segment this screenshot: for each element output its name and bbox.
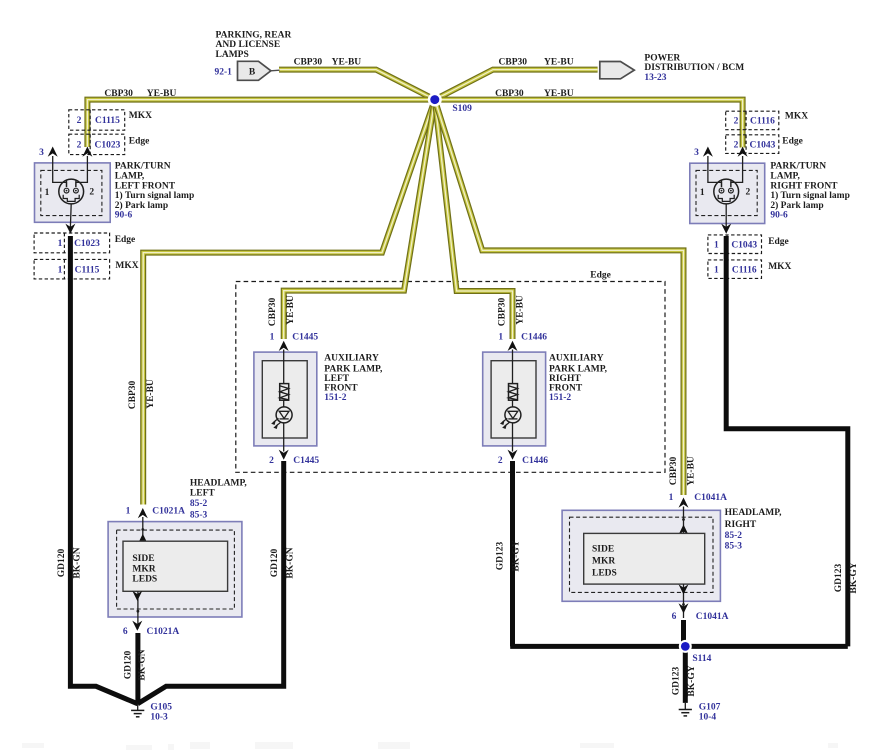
- LED, aux park lamp left: [272, 407, 292, 429]
- resistor, aux park lamp right: [509, 384, 518, 401]
- connector C1445 pin 2: [269, 450, 319, 467]
- svg-text:FRONT: FRONT: [324, 383, 358, 393]
- connector C1446 pin 2: [498, 450, 548, 467]
- svg-text:YE-BU: YE-BU: [515, 295, 525, 325]
- wire GD120 BK-GN from left park/turn lamp to ground G105: [70, 236, 137, 704]
- pin 2 arrow into C1043, right: [731, 147, 748, 188]
- svg-text:2) Park lamp: 2) Park lamp: [770, 200, 823, 211]
- label G107 10-4: [699, 703, 721, 723]
- svg-text:90-6: 90-6: [770, 211, 788, 221]
- connector C1445 pin 1: [270, 332, 319, 351]
- svg-text:RIGHT: RIGHT: [725, 520, 757, 530]
- svg-text:92-1: 92-1: [215, 68, 233, 78]
- svg-text:3: 3: [39, 148, 44, 158]
- wire CBP30 YE-BU from splice S109 to power distribution / BCM: [435, 70, 598, 100]
- wire CBP30 YE-BU from S109 to headlamp right C1041A: [435, 100, 684, 495]
- svg-text:C1041A: C1041A: [694, 493, 727, 503]
- svg-text:6: 6: [672, 612, 677, 622]
- svg-text:3: 3: [694, 148, 699, 158]
- wire CBP30 YE-BU from S109 to headlamp left C1021A: [143, 100, 435, 505]
- svg-text:10-4: 10-4: [699, 713, 717, 723]
- park/turn lamp left front (component box): [35, 163, 111, 222]
- svg-text:MKX: MKX: [115, 261, 138, 271]
- svg-text:CBP30: CBP30: [128, 381, 138, 410]
- svg-text:MKR: MKR: [592, 557, 615, 567]
- svg-text:S109: S109: [452, 104, 472, 114]
- svg-text:YE-BU: YE-BU: [147, 89, 177, 99]
- pin 1 arrow inside headlamp right: [679, 518, 689, 535]
- svg-text:GD123: GD123: [495, 542, 505, 571]
- svg-text:2: 2: [77, 116, 82, 126]
- label auxiliary park lamp left front: [324, 353, 383, 403]
- connector C1043 pin 2 (Edge): [726, 135, 779, 154]
- svg-text:1: 1: [126, 506, 131, 516]
- splice S109: [428, 93, 472, 114]
- svg-text:BK-GY: BK-GY: [687, 665, 697, 696]
- park/turn lamp right front (component box): [690, 163, 765, 223]
- svg-text:151-2: 151-2: [549, 393, 571, 403]
- svg-text:C1446: C1446: [521, 332, 547, 342]
- svg-text:1) Turn signal lamp: 1) Turn signal lamp: [115, 190, 194, 201]
- resistor, aux park lamp left: [280, 384, 289, 401]
- headlamp right (component box): [562, 507, 720, 602]
- svg-text:SIDE: SIDE: [592, 545, 614, 555]
- svg-text:Edge: Edge: [768, 237, 789, 247]
- svg-text:2: 2: [269, 456, 274, 466]
- pin 1 arrow inside headlamp left: [138, 528, 148, 544]
- svg-text:2: 2: [734, 140, 739, 150]
- svg-text:1: 1: [700, 188, 705, 198]
- wire label CBP30 YE-BU (aux left, vertical): [268, 295, 296, 326]
- svg-text:Edge: Edge: [590, 271, 611, 281]
- svg-text:C1445: C1445: [292, 332, 318, 342]
- connector C1021A pin 6: [123, 621, 180, 637]
- svg-text:LAMP,: LAMP,: [115, 172, 145, 182]
- svg-text:C1023: C1023: [74, 239, 100, 249]
- splice S114: [679, 640, 712, 664]
- pin 1 arrow out of lamp bottom, right: [721, 224, 731, 234]
- svg-text:G107: G107: [699, 703, 721, 713]
- wire GD123 BK-GY ground bus to S114: [510, 644, 848, 649]
- svg-text:2: 2: [734, 117, 739, 127]
- svg-text:C1116: C1116: [732, 265, 757, 275]
- svg-text:CBP30: CBP30: [268, 298, 278, 327]
- connector C1043 pin 1 (Edge): [708, 235, 762, 254]
- svg-text:CBP30: CBP30: [294, 57, 323, 67]
- svg-text:CBP30: CBP30: [669, 457, 679, 486]
- wire label GD120 BK-GN (headlamp left drop): [124, 649, 148, 680]
- svg-text:GD123: GD123: [672, 667, 682, 696]
- svg-text:YE-BU: YE-BU: [146, 379, 156, 409]
- wire from bulb to lower pin, left: [69, 204, 72, 227]
- svg-text:YE-BU: YE-BU: [686, 456, 696, 486]
- svg-text:LEFT: LEFT: [190, 489, 215, 499]
- svg-text:MKX: MKX: [785, 112, 808, 122]
- svg-text:GD120: GD120: [57, 549, 67, 578]
- svg-text:C1115: C1115: [95, 116, 120, 126]
- wire label GD123 BK-GY (aux right run): [495, 540, 521, 571]
- svg-text:POWER: POWER: [644, 53, 680, 63]
- wire label GD120 BK-GN (aux left run): [270, 547, 295, 578]
- connector C1023 pin 2 (Edge): [69, 134, 125, 154]
- svg-text:C1023: C1023: [95, 141, 121, 151]
- svg-text:85-3: 85-3: [725, 542, 743, 552]
- svg-text:GD120: GD120: [124, 651, 134, 680]
- svg-text:C1446: C1446: [522, 456, 548, 466]
- svg-text:CBP30: CBP30: [497, 298, 507, 327]
- faint cropped strip at bottom edge: [22, 742, 838, 750]
- wire CBP30 YE-BU from S109 to auxiliary park lamp left C1445: [284, 100, 435, 339]
- label G105 10-3: [150, 703, 172, 723]
- wire label GD123 BK-GY (ground drop): [672, 665, 697, 696]
- svg-text:AUXILIARY: AUXILIARY: [324, 353, 379, 363]
- svg-text:AND LICENSE: AND LICENSE: [216, 40, 281, 50]
- label headlamp left 85-2 85-3: [190, 478, 248, 520]
- svg-text:CBP30: CBP30: [495, 89, 524, 99]
- svg-text:YE-BU: YE-BU: [544, 89, 574, 99]
- connector C1115 pin 2 (MKX): [69, 110, 125, 130]
- svg-text:2: 2: [498, 456, 503, 466]
- label parking rear and license lamps: [216, 31, 292, 60]
- svg-text:MKR: MKR: [132, 564, 155, 574]
- svg-text:YE-BU: YE-BU: [286, 295, 296, 325]
- side marker LEDs module, right: [584, 533, 705, 584]
- svg-text:YE-BU: YE-BU: [332, 57, 362, 67]
- wire label CBP30 YE-BU (headlamp left, vertical): [128, 379, 156, 409]
- svg-text:LEFT: LEFT: [324, 374, 349, 384]
- off-page connector B (parking, rear and license lamps) 92-1: [215, 61, 280, 80]
- svg-text:C1043: C1043: [731, 240, 757, 250]
- svg-text:GD120: GD120: [270, 549, 280, 578]
- svg-text:C1043: C1043: [750, 140, 776, 150]
- svg-text:HEADLAMP,: HEADLAMP,: [190, 478, 248, 488]
- svg-text:13-23: 13-23: [644, 73, 666, 83]
- svg-text:PARKING, REAR: PARKING, REAR: [216, 31, 292, 41]
- side marker LEDs module, left: [123, 541, 228, 591]
- wire CBP30 YE-BU from connector B to splice S109: [279, 70, 435, 100]
- svg-text:2: 2: [77, 141, 82, 151]
- svg-text:C1041A: C1041A: [696, 612, 729, 622]
- svg-text:FRONT: FRONT: [549, 383, 583, 393]
- off-page connector power distribution / BCM 13-23: [600, 53, 744, 83]
- svg-text:Edge: Edge: [782, 137, 803, 147]
- svg-text:Edge: Edge: [129, 137, 150, 147]
- svg-text:HEADLAMP,: HEADLAMP,: [725, 508, 783, 518]
- svg-text:BK-GN: BK-GN: [138, 649, 148, 680]
- harness boundary Edge (dashed box): [236, 271, 665, 473]
- connector C1041A pin 1: [669, 493, 728, 508]
- svg-text:C1115: C1115: [75, 265, 100, 275]
- svg-text:1: 1: [714, 240, 719, 250]
- svg-text:2: 2: [746, 188, 751, 198]
- connector C1023 pin 1 (Edge): [34, 233, 110, 253]
- svg-text:G105: G105: [150, 703, 172, 713]
- label park/turn lamp left front: [115, 162, 194, 221]
- svg-text:10-3: 10-3: [150, 713, 168, 723]
- svg-text:1: 1: [45, 188, 50, 198]
- svg-text:CBP30: CBP30: [104, 89, 133, 99]
- wire GD123 BK-GY from auxiliary park lamp right to splice S114: [510, 461, 515, 646]
- auxiliary park lamp right front (component box): [483, 350, 546, 452]
- ground G107: [679, 703, 692, 716]
- svg-text:C1445: C1445: [293, 456, 319, 466]
- svg-text:GD123: GD123: [834, 564, 844, 593]
- pin 6 arrow inside headlamp left: [132, 591, 142, 629]
- label park/turn lamp right front: [770, 162, 849, 221]
- svg-text:BK-GN: BK-GN: [73, 547, 83, 578]
- svg-text:85-3: 85-3: [190, 510, 208, 520]
- svg-text:1: 1: [669, 493, 674, 503]
- svg-text:LEDS: LEDS: [592, 569, 617, 579]
- svg-text:BK-GN: BK-GN: [285, 547, 295, 578]
- svg-text:1) Turn signal lamp: 1) Turn signal lamp: [770, 190, 849, 201]
- svg-text:1: 1: [270, 332, 275, 342]
- wire GD120 BK-GN from headlamp left to ground G105: [135, 633, 140, 704]
- wire label CBP30 YE-BU (top left): [294, 57, 362, 67]
- svg-text:SIDE: SIDE: [132, 554, 154, 564]
- svg-text:PARK/TURN: PARK/TURN: [770, 162, 826, 172]
- svg-text:1: 1: [714, 265, 719, 275]
- svg-text:DISTRIBUTION / BCM: DISTRIBUTION / BCM: [644, 63, 744, 73]
- svg-text:AUXILIARY: AUXILIARY: [549, 353, 604, 363]
- svg-text:BK-GY: BK-GY: [512, 540, 522, 571]
- bulb, dual filament, left park/turn lamp: [59, 179, 84, 204]
- wire CBP30 YE-BU main run between left and right park/turn lamps through S109: [87, 100, 742, 148]
- wire label CBP30 YE-BU (top right): [499, 57, 574, 67]
- svg-text:C1021A: C1021A: [147, 627, 180, 637]
- svg-text:MKX: MKX: [129, 111, 152, 121]
- svg-text:2: 2: [89, 188, 94, 198]
- ground G105: [131, 704, 144, 717]
- svg-text:1: 1: [58, 265, 63, 275]
- svg-text:1: 1: [498, 332, 503, 342]
- wire CBP30 YE-BU from S109 to auxiliary park lamp right C1446: [435, 100, 513, 339]
- svg-text:RIGHT: RIGHT: [549, 374, 581, 384]
- connector C1446 pin 1: [498, 332, 547, 351]
- wire label CBP30 YE-BU (main run left): [104, 89, 176, 99]
- svg-text:S114: S114: [692, 654, 711, 664]
- label headlamp right 85-2 85-3: [725, 508, 783, 552]
- connector C1116 pin 1 (MKX): [708, 260, 762, 279]
- connector C1021A pin 1: [126, 506, 186, 518]
- pin 3 arrow, turn signal circuit, left: [39, 147, 66, 188]
- pin 6 arrow inside headlamp right: [679, 584, 689, 618]
- svg-text:LEDS: LEDS: [132, 575, 157, 585]
- svg-text:LAMPS: LAMPS: [216, 50, 249, 60]
- wire GD123 BK-GY from headlamp right to splice S114: [681, 620, 686, 646]
- svg-text:C1021A: C1021A: [152, 506, 185, 516]
- wire label CBP30 YE-BU (main run right): [495, 89, 574, 99]
- pin 2 arrow into C1023, left: [76, 147, 93, 188]
- svg-text:PARK/TURN: PARK/TURN: [115, 162, 171, 172]
- bulb, dual filament, right park/turn lamp: [714, 179, 739, 204]
- wire GD120 BK-GN from auxiliary park lamp left to ground G105: [138, 461, 284, 704]
- svg-text:RIGHT FRONT: RIGHT FRONT: [770, 182, 838, 192]
- svg-text:LEFT FRONT: LEFT FRONT: [115, 182, 176, 192]
- svg-text:CBP30: CBP30: [499, 57, 528, 67]
- svg-text:151-2: 151-2: [324, 393, 346, 403]
- wire GD123 BK-GY from right park/turn lamp to splice S114: [726, 236, 848, 646]
- wire label GD120 BK-GN (left tall run): [57, 547, 83, 578]
- LED, aux park lamp right: [501, 407, 521, 429]
- svg-text:C1116: C1116: [750, 117, 775, 127]
- wire label CBP30 YE-BU (aux right, vertical): [497, 295, 525, 326]
- label auxiliary park lamp right front: [549, 353, 608, 403]
- svg-text:LAMP,: LAMP,: [770, 172, 800, 182]
- wire label GD123 BK-GY (right tall run): [834, 562, 859, 593]
- svg-text:2) Park lamp: 2) Park lamp: [115, 200, 168, 211]
- svg-text:YE-BU: YE-BU: [544, 57, 574, 67]
- svg-text:Edge: Edge: [115, 235, 136, 245]
- connector C1041A pin 6: [672, 603, 729, 622]
- svg-text:6: 6: [123, 627, 128, 637]
- svg-text:MKX: MKX: [768, 262, 791, 272]
- connector C1116 pin 2 (MKX): [726, 111, 779, 130]
- svg-text:BK-GY: BK-GY: [849, 562, 859, 593]
- auxiliary park lamp left front (component box): [254, 350, 317, 452]
- wire GD123 BK-GY from splice S114 to ground G107: [683, 646, 688, 703]
- svg-text:90-6: 90-6: [115, 211, 133, 221]
- svg-text:85-2: 85-2: [190, 499, 208, 509]
- connector C1115 pin 1 (MKX): [34, 259, 110, 279]
- pin 1 arrow out of lamp bottom, left: [65, 224, 75, 234]
- svg-text:B: B: [249, 68, 256, 78]
- headlamp left (component box): [108, 517, 242, 617]
- wire from bulb to lower pin, right: [725, 204, 727, 227]
- svg-text:1: 1: [58, 239, 63, 249]
- pin 3 arrow, turn signal circuit, right: [694, 147, 721, 188]
- svg-text:85-2: 85-2: [725, 531, 743, 541]
